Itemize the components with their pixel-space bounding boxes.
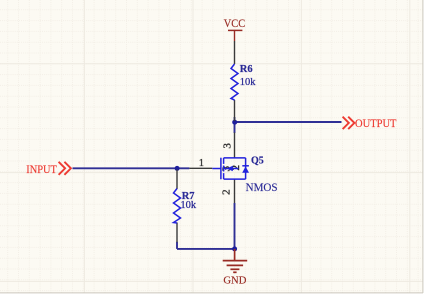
- svg-text:GND: GND: [223, 274, 246, 286]
- svg-text:3: 3: [222, 143, 234, 149]
- svg-text:OUTPUT: OUTPUT: [355, 118, 397, 130]
- svg-text:INPUT: INPUT: [26, 164, 57, 176]
- svg-text:10k: 10k: [240, 77, 257, 88]
- svg-text:2: 2: [221, 189, 233, 195]
- svg-text:VCC: VCC: [224, 18, 245, 30]
- svg-text:10k: 10k: [180, 200, 197, 211]
- svg-text:1: 1: [199, 158, 204, 169]
- svg-text:Q5: Q5: [251, 156, 264, 167]
- svg-text:NMOS: NMOS: [246, 180, 278, 194]
- svg-text:R6: R6: [240, 64, 253, 75]
